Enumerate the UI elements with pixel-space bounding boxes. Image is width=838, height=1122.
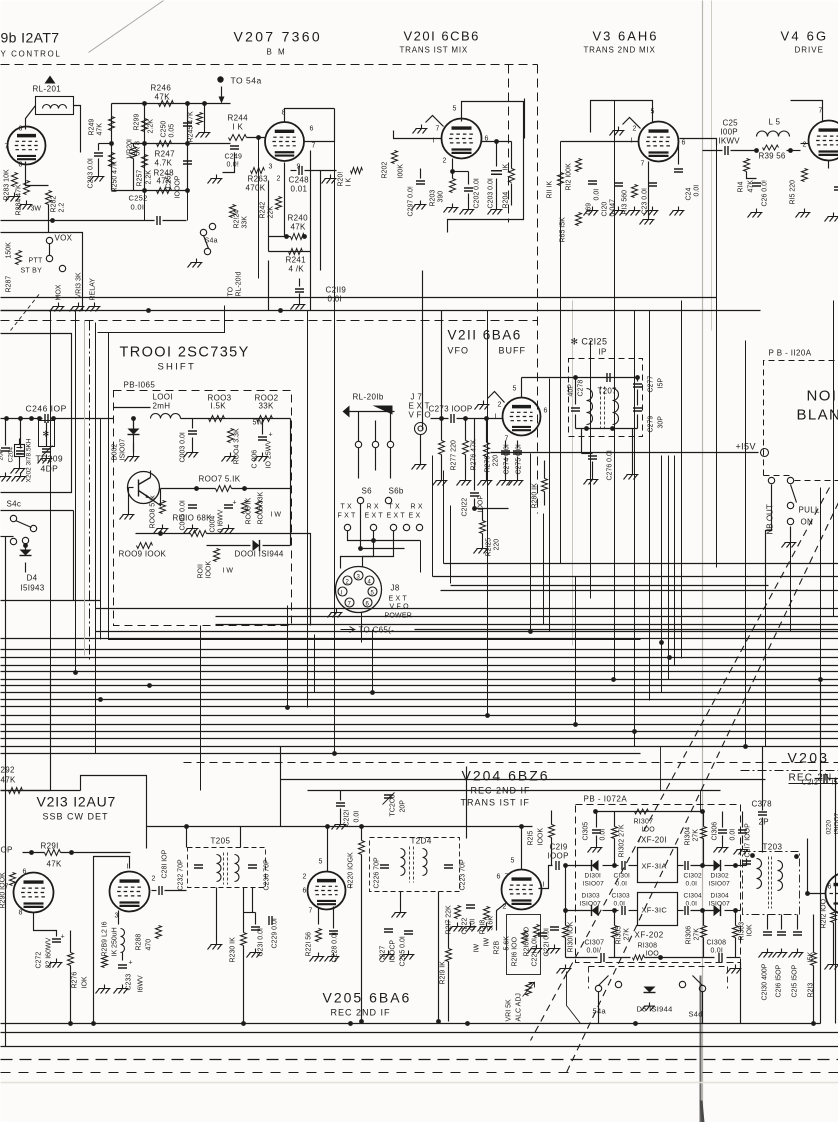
svg-text:6: 6 — [497, 874, 501, 881]
svg-text:IW: IW — [484, 938, 491, 947]
wire cluster mid rail — [131, 143, 231, 145]
wire D002 — [133, 419, 135, 429]
T204 right capacitor — [444, 865, 453, 868]
star padder box — [39, 421, 55, 447]
svg-text:R2B: R2B — [494, 941, 501, 955]
svg-text:XF-3IC: XF-3IC — [642, 906, 668, 915]
svg-text:R249: R249 — [89, 119, 96, 136]
svg-text:OP: OP — [1, 846, 13, 855]
svg-text:L 5: L 5 — [769, 118, 781, 127]
svg-text:R2I9 IK: R2I9 IK — [440, 961, 447, 985]
component box left margin — [1, 334, 72, 493]
svg-text:2: 2 — [303, 874, 307, 881]
bus wire 14 — [1, 731, 838, 733]
svg-text:C22I 0.0I: C22I 0.0I — [532, 938, 539, 966]
svg-text:R39 56: R39 56 — [759, 152, 786, 161]
tube V3 pentode — [639, 122, 679, 162]
svg-text:20P: 20P — [400, 800, 407, 813]
svg-text:I K: I K — [233, 123, 244, 132]
svg-text:0.0I: 0.0I — [711, 948, 723, 955]
svg-text:X202 3I78.5KH: X202 3I78.5KH — [26, 438, 33, 482]
svg-text:C297 0.0!: C297 0.0! — [408, 186, 415, 216]
svg-text:T X: T X — [341, 504, 352, 511]
switch contact — [46, 237, 52, 243]
wire t203 input — [741, 865, 747, 867]
svg-text:R230 IK: R230 IK — [230, 937, 237, 963]
svg-text:IOOP: IOOP — [478, 495, 485, 513]
J8 pin 4 — [365, 576, 374, 585]
svg-text:IP: IP — [599, 348, 607, 357]
wire band lower 1 — [281, 779, 766, 781]
wire r219 column — [448, 920, 450, 949]
svg-text:5.6K: 5.6K — [488, 916, 495, 931]
svg-text:P B - II20A: P B - II20A — [769, 349, 812, 358]
wire cluster bottom rail — [112, 190, 188, 192]
svg-text:ROO8 5.Ik: ROO8 5.Ik — [150, 495, 157, 529]
svg-text:7: 7 — [5, 144, 9, 151]
T203 input capacitor — [742, 861, 751, 864]
wire R240 row — [269, 236, 291, 238]
wire R244 to grid — [247, 137, 265, 139]
svg-text:V2II 6BA6: V2II 6BA6 — [448, 328, 522, 343]
wire +15V line — [491, 452, 759, 454]
tube V209b triode — [8, 127, 46, 165]
svg-text:S4c: S4c — [7, 500, 22, 509]
svg-text:0220: 0220 — [826, 820, 833, 835]
svg-text:RI307: RI307 — [634, 819, 654, 826]
svg-text:5W: 5W — [253, 420, 264, 427]
tube V203 partial at page edge — [826, 873, 838, 915]
svg-text:V204 6BZ6: V204 6BZ6 — [462, 768, 550, 784]
bus wire 15 — [1, 738, 838, 740]
transformer T205 dashed box — [188, 848, 266, 888]
wire bottom 1032 — [1, 1032, 838, 1034]
svg-text:+: + — [61, 934, 65, 941]
svg-text:C25: C25 — [723, 119, 739, 128]
capacitor C1307 series — [601, 953, 604, 962]
svg-text:C250: C250 — [161, 121, 168, 138]
noise blanker dashed box — [764, 361, 838, 476]
svg-text:TO C65(-: TO C65(- — [359, 626, 395, 635]
tube V204 pentode — [502, 870, 542, 910]
svg-text:7: 7 — [505, 874, 509, 881]
wire plate top loop — [448, 102, 524, 233]
svg-text:7: 7 — [641, 161, 645, 168]
wire to VOX — [48, 205, 50, 233]
grid cap hook — [426, 116, 444, 127]
wire v213a cathode — [34, 913, 57, 937]
svg-text:R2I2 IOO: R2I2 IOO — [821, 898, 828, 928]
wire xf top feed — [661, 747, 701, 813]
svg-text:RI4: RI4 — [738, 182, 745, 193]
svg-text:R242: R242 — [260, 202, 267, 219]
svg-text:C2I9: C2I9 — [550, 843, 568, 852]
svg-text:7: 7 — [309, 908, 313, 915]
svg-text:2: 2 — [803, 142, 807, 149]
svg-text:40P: 40P — [568, 384, 575, 397]
wire v213b cathode — [118, 911, 120, 925]
svg-text:220: 220 — [493, 455, 500, 467]
tube V207 beam modulator — [265, 122, 304, 161]
label TO C65 with arrow — [341, 627, 355, 633]
svg-text:0.0I: 0.0I — [730, 829, 737, 841]
svg-text:0.0I/: 0.0I/ — [587, 948, 602, 955]
svg-text:C293 0.0I: C293 0.0I — [88, 158, 95, 188]
svg-text:DI304: DI304 — [711, 893, 730, 900]
wire bus upper right 3 — [451, 585, 769, 587]
wire input row — [114, 407, 151, 409]
wire v4 plate — [791, 101, 823, 121]
filter XF-31A box — [638, 848, 678, 883]
svg-text:R280 IK: R280 IK — [532, 483, 539, 509]
svg-text:E X: E X — [409, 513, 421, 520]
wires down from C246 row — [5, 419, 7, 446]
T204 coils — [401, 849, 406, 876]
T203 junction dots — [750, 853, 755, 858]
wire filter bottom rail — [566, 957, 598, 959]
V203 board dash-dot boundary — [741, 770, 838, 772]
capacitor C273 symbol — [451, 414, 454, 423]
wire v207 grid drop — [284, 163, 286, 237]
wire pin9 row — [291, 170, 297, 172]
svg-text:0.0I: 0.0I — [354, 811, 361, 823]
svg-text:+: + — [129, 960, 133, 967]
wire c281 — [152, 890, 157, 892]
svg-text:4 /K: 4 /K — [289, 265, 305, 274]
svg-text:DI302: DI302 — [711, 873, 730, 880]
wire v204 to filter — [539, 866, 553, 889]
svg-text:SSB CW DET: SSB CW DET — [43, 812, 109, 822]
svg-text:V207 7360: V207 7360 — [234, 29, 322, 45]
relay RL-201 arrow — [45, 76, 56, 84]
wire pin6 right — [482, 141, 512, 143]
wire v213 box top — [81, 776, 147, 849]
switch S6 contacts — [357, 497, 363, 503]
svg-text:ISIO07: ISIO07 — [709, 881, 731, 888]
svg-text:IOOK: IOOK — [206, 561, 213, 579]
svg-text:IOO: IOO — [642, 827, 656, 834]
svg-text:30P: 30P — [658, 416, 665, 429]
svg-text:R220 IOGK: R220 IOGK — [348, 852, 355, 889]
bus wire 5 — [1, 665, 838, 667]
svg-text:RI304: RI304 — [685, 827, 692, 846]
wire bus upper right 4 — [441, 590, 838, 592]
svg-text:3: 3 — [115, 913, 119, 920]
svg-text:XF-3IA: XF-3IA — [642, 862, 667, 871]
transformer T203 dash-dot box — [743, 852, 800, 915]
wire bus upper right 2 — [433, 576, 838, 578]
diode D1301 — [592, 860, 599, 871]
tube V205 pentode — [308, 872, 346, 910]
wire v211 plate — [521, 378, 523, 398]
svg-text:R2!24: R2!24 — [234, 210, 241, 229]
J8 pin 1 — [338, 587, 347, 596]
svg-text:6: 6 — [828, 884, 832, 891]
switch lever — [791, 485, 797, 503]
capacitor C246 symbol — [45, 414, 48, 423]
svg-text:C272: C272 — [36, 952, 43, 969]
svg-text:9b I2AT7: 9b I2AT7 — [1, 30, 60, 46]
svg-text:C24: C24 — [686, 188, 693, 201]
wire upper long rail — [1, 297, 717, 299]
wire v201 to bus vertical — [524, 99, 526, 139]
svg-text:RI306: RI306 — [686, 926, 693, 945]
svg-text:IK 250uH: IK 250uH — [112, 927, 119, 956]
wire TR ground — [129, 487, 134, 489]
svg-text:R2I6 IOO: R2I6 IOO — [512, 936, 519, 966]
wire mid row — [161, 488, 216, 490]
bus wire 3 — [1, 649, 838, 651]
bus wire 2 — [1, 638, 838, 640]
page fold dark bottom segment — [700, 976, 702, 1122]
svg-text:R277 220: R277 220 — [451, 440, 458, 470]
svg-text:2: 2 — [633, 126, 637, 133]
svg-text:R290 IOOK: R290 IOOK — [0, 872, 7, 909]
svg-text:4DP: 4DP — [41, 464, 59, 474]
svg-text:27K: 27K — [694, 928, 701, 941]
ground — [796, 209, 811, 218]
wire v213b grid — [94, 857, 130, 1024]
svg-text:DI30I: DI30I — [585, 873, 602, 880]
svg-text:I.5K: I.5K — [211, 402, 227, 411]
connector J7 jack — [415, 423, 427, 435]
wire bottom collector — [1, 1023, 821, 1025]
T205 left capacitor — [194, 865, 203, 868]
wire under C249 — [223, 153, 235, 173]
T207 left capacitor C278 — [571, 408, 580, 411]
svg-text:R257: R257 — [137, 170, 144, 187]
wire bus 624 — [216, 624, 838, 626]
svg-text:47K: 47K — [157, 177, 172, 186]
svg-text:T X: T X — [389, 504, 400, 511]
switch lever — [49, 244, 51, 256]
svg-text:CI30I: CI30I — [614, 873, 631, 880]
svg-text:2: 2 — [152, 876, 156, 883]
svg-text:8: 8 — [19, 162, 23, 169]
wire collect 2 — [361, 504, 405, 549]
svg-text:C28I IOP: C28I IOP — [162, 849, 169, 878]
svg-text:0.01: 0.01 — [291, 185, 308, 194]
wire v207 col2 — [268, 181, 270, 252]
svg-text:27K: 27K — [624, 928, 631, 941]
svg-text:IOK: IOK — [82, 976, 89, 988]
ground row v3 — [584, 207, 599, 216]
bus wire 16 — [1, 746, 838, 748]
wire C246 row — [1, 418, 43, 420]
bus wire 1 — [96, 631, 838, 633]
bus wire 9 — [1, 692, 838, 694]
capacitor C2119 0.01 cap symbol — [295, 289, 304, 292]
svg-text:CI308: CI308 — [707, 940, 727, 947]
wire bus 616 — [216, 616, 838, 618]
wire C297 — [420, 169, 422, 179]
svg-text:I5I943: I5I943 — [21, 584, 45, 593]
transformer T207 dashed box — [569, 359, 643, 437]
svg-text:5.6K: 5.6K — [504, 936, 511, 951]
svg-text:2.2K: 2.2K — [146, 170, 153, 185]
svg-text:5: 5 — [453, 106, 457, 113]
arrow down — [221, 87, 223, 100]
svg-text:ROO9 IOOK: ROO9 IOOK — [119, 550, 167, 559]
capacitor C1302 series — [685, 861, 688, 870]
svg-text:DRIVE: DRIVE — [795, 46, 824, 55]
svg-text:R20!: R20! — [338, 172, 345, 187]
wire L5 junction — [754, 148, 759, 153]
dashed unit boundary inner drop — [508, 65, 510, 223]
svg-text:REC 2ND IF: REC 2ND IF — [331, 1008, 391, 1018]
T205 coils — [217, 855, 222, 882]
svg-text:47K: 47K — [1, 776, 16, 785]
wire v203 grid — [808, 893, 826, 895]
svg-text:C230 70P: C230 70P — [264, 859, 271, 890]
svg-text:ISIO07: ISIO07 — [709, 901, 731, 908]
svg-text:ALC ADJ: ALC ADJ — [516, 993, 523, 1021]
svg-text:CI307: CI307 — [585, 940, 605, 947]
svg-text:C249: C249 — [225, 154, 243, 161]
svg-text:XF-202: XF-202 — [635, 931, 664, 940]
svg-text:CI20: CI20 — [602, 202, 609, 217]
svg-text:RL-20Ib: RL-20Ib — [353, 393, 384, 402]
switch S4a contacts — [595, 985, 601, 991]
svg-text:PTT: PTT — [29, 258, 44, 265]
svg-text:C204: C204 — [8, 447, 15, 463]
svg-text:R X: R X — [411, 504, 423, 511]
wire v207 col1 — [258, 138, 260, 279]
svg-text:C232 70P: C232 70P — [178, 859, 185, 890]
svg-text:J 7: J 7 — [411, 393, 423, 402]
svg-text:D002: D002 — [112, 444, 119, 461]
wire d001 row — [207, 545, 251, 547]
wire t207 top rail — [522, 377, 638, 379]
ground filter right — [727, 965, 742, 974]
bus wire 753 — [1, 753, 641, 755]
wire R241 row — [269, 251, 311, 253]
bus wire 10 — [1, 699, 838, 701]
svg-text:0.0I: 0.0I — [686, 901, 698, 908]
svg-text:TRANS IST IF: TRANS IST IF — [461, 798, 530, 808]
bus wire 4 — [1, 657, 838, 659]
svg-text:C273 IOOP: C273 IOOP — [429, 405, 473, 414]
svg-text:C248: C248 — [289, 176, 310, 185]
J8 pin 3 — [354, 571, 363, 580]
svg-text:TO 54a: TO 54a — [231, 76, 262, 86]
svg-text:I: I — [127, 864, 129, 871]
svg-text:I5: I5 — [832, 780, 838, 787]
svg-text:R241: R241 — [286, 256, 307, 265]
transformer T204 dashed box — [370, 838, 460, 892]
wire t204 down — [400, 892, 402, 909]
svg-text:C2I22: C2I22 — [462, 498, 469, 517]
svg-text:R22I 56: R22I 56 — [306, 932, 313, 957]
svg-text:C226 70P: C226 70P — [374, 857, 381, 888]
svg-text:C274 0.0I: C274 0.0I — [504, 444, 511, 474]
svg-text:C202 0.0I: C202 0.0I — [474, 178, 481, 208]
wire v3 cathode stub — [648, 162, 650, 216]
svg-text:S4d: S4d — [689, 1010, 703, 1019]
svg-text:D4: D4 — [27, 574, 38, 583]
svg-text:BUFF: BUFF — [499, 346, 527, 356]
wire r216 box — [507, 915, 541, 975]
svg-text:R29I: R29I — [41, 842, 59, 851]
svg-text:PB-I065: PB-I065 — [124, 381, 156, 390]
svg-text:E X T: E X T — [409, 402, 430, 411]
svg-text:IW: IW — [474, 944, 481, 953]
svg-text:TRANS 2ND MIX: TRANS 2ND MIX — [584, 46, 656, 55]
svg-text:CI303: CI303 — [612, 893, 631, 900]
svg-text:0.0I: 0.0I — [594, 189, 601, 201]
wire t204 right column — [438, 892, 440, 1022]
resistor zigzag small — [102, 956, 108, 968]
svg-text:069: 069 — [586, 203, 593, 215]
capacitor C219 symbol — [556, 861, 559, 870]
ground cluster right — [196, 129, 211, 138]
wire plate top v3 — [591, 101, 653, 133]
svg-text:VRI3 3K: VRI3 3K — [76, 272, 83, 298]
svg-text:I W: I W — [271, 512, 282, 519]
wire S4c bottom — [1, 536, 14, 538]
svg-text:B M: B M — [267, 48, 287, 57]
solid box around TR001 area — [95, 323, 97, 640]
svg-text:2: 2 — [277, 176, 281, 183]
J8 pin 5 — [368, 587, 377, 596]
bus wire 11 — [1, 706, 838, 708]
wire S4c — [25, 544, 27, 550]
wire pin6 junction — [494, 139, 499, 144]
svg-text:V2I3 I2AU7: V2I3 I2AU7 — [37, 794, 117, 810]
svg-text:I W: I W — [223, 568, 234, 575]
svg-text:C279: C279 — [648, 416, 655, 433]
tube V213b triode — [110, 872, 150, 912]
wire cluster top rail — [112, 103, 231, 105]
svg-text:292: 292 — [1, 766, 15, 775]
svg-text:33K: 33K — [259, 402, 274, 411]
resistor R220 100K — [359, 841, 365, 855]
wire v207 down right — [310, 151, 312, 311]
svg-text:27K: 27K — [693, 829, 700, 842]
svg-text:2: 2 — [498, 402, 502, 409]
circuit board PB-1072A dashed outline — [576, 805, 741, 963]
svg-text:8: 8 — [19, 910, 23, 917]
ground filter left — [557, 965, 572, 974]
connector J8 circle — [336, 567, 382, 613]
svg-text:C225 0.0I: C225 0.0I — [400, 936, 407, 966]
dash-dot board boundary left — [1, 320, 538, 322]
svg-text:0.0!: 0.0! — [227, 162, 239, 169]
wire v205 block verticals — [280, 747, 282, 827]
svg-text:I: I — [543, 882, 545, 889]
wire v4 grid — [801, 143, 809, 145]
transistor TR001 symbol — [128, 472, 160, 504]
svg-text:4.7K: 4.7K — [155, 159, 173, 168]
svg-text:R288: R288 — [136, 934, 143, 951]
svg-text:IKWV: IKWV — [719, 137, 741, 146]
svg-text:DI303: DI303 — [582, 893, 601, 900]
svg-text:C2I6 I5OP: C2I6 I5OP — [776, 964, 783, 997]
relay contacts — [355, 441, 361, 447]
diode D5 1S1944 — [644, 987, 656, 993]
ground row — [444, 204, 459, 213]
svg-text:I5P: I5P — [658, 378, 665, 389]
dashed bus wire — [184, 762, 838, 764]
wire C248 to R201 — [305, 170, 337, 172]
svg-text:/XF-20I: /XF-20I — [639, 836, 667, 845]
diode D1302 — [714, 860, 721, 871]
wire mixer line — [703, 150, 723, 152]
svg-text:RI5 220: RI5 220 — [790, 180, 797, 205]
svg-text:J8: J8 — [391, 584, 400, 593]
svg-text:C2I30 400P: C2I30 400P — [762, 963, 769, 1000]
wire bottom 1046 — [1, 1046, 838, 1048]
